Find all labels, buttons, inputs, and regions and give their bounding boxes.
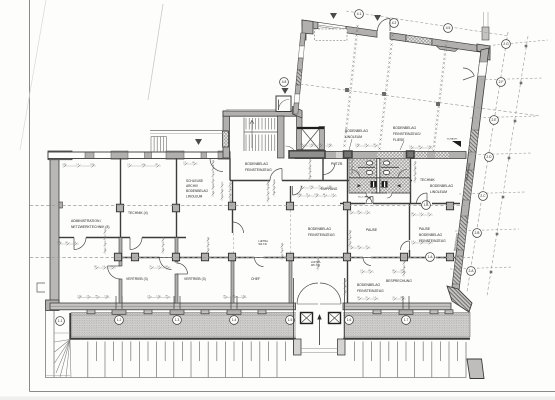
svg-text:2.G: 2.G [503,42,509,46]
svg-text:2.B: 2.B [475,231,481,235]
svg-text:PAUSE: PAUSE [419,227,431,231]
wing left wall pillar bump [59,202,63,208]
canopy line left of stair block [150,130,228,132]
wing bottom-left corner block [46,300,60,311]
grid marker 2.F [497,78,506,87]
scan edge bottom [0,397,555,400]
svg-text:1.7: 1.7 [404,318,409,322]
vestibule side walls [294,278,345,353]
svg-text:SCHACHT: SCHACHT [447,138,458,141]
svg-text:NETZWERKTECHNIK (8): NETZWERKTECHNIK (8) [71,225,109,229]
grid marker 2.B [473,229,482,238]
grid marker 1.6 [345,316,354,325]
arcade band inner edge line [71,314,470,316]
svg-text:BODENBELAG: BODENBELAG [357,283,380,287]
stair block left wall [223,111,230,158]
stair treads [244,118,278,152]
strip bottom second line [46,375,71,377]
svg-text:1.0B: 1.0B [274,179,276,184]
wall y204 right side [340,203,365,205]
wc fixtures [358,184,401,187]
triangle marker canopy [195,139,202,145]
hall left angled wall [293,33,305,114]
grid marker 1.1 [56,317,65,326]
svg-text:BESPRECHUNG: BESPRECHUNG [386,279,412,283]
triangle marker hall top 1 [330,13,337,19]
junction block wc right [407,151,415,158]
parking band outline [46,311,467,378]
small pillar bases below bottom wall [87,310,95,314]
wc shafts black [371,181,388,188]
svg-text:4.8: 4.8 [282,80,287,84]
page border left [29,0,31,392]
svg-text:BODENBELAG: BODENBELAG [430,184,453,188]
svg-text:ARCHIV: ARCHIV [186,184,199,188]
svg-text:TECHNIK: TECHNIK [420,178,435,182]
partition x232 [232,181,234,233]
corridor wall y181 [230,180,270,182]
triangle marker hall top 2 [374,15,381,21]
grid marker 1.5 [286,316,295,325]
grid marker 4.8 [280,78,289,87]
wing bottom exterior wall right part [343,303,451,310]
ledge line above stair block [226,108,296,110]
svg-text:PUTZR.: PUTZR. [331,162,343,166]
grid marker 2.D [485,153,494,162]
svg-text:BODENBELAG: BODENBELAG [419,233,442,237]
grid marker 1.A [426,253,435,262]
svg-text:TECHNIK (4): TECHNIK (4) [128,211,148,215]
arcade band bottom dark edge [70,338,470,340]
sliding door pocket dashed rect [315,29,348,41]
pause divider x409 [409,204,411,240]
svg-text:BODENBELAG: BODENBELAG [345,129,368,133]
wing top exterior wall with windows [48,151,230,159]
grid marker 2.E [490,116,499,125]
svg-text:FEINSTEINZEUG: FEINSTEINZEUG [308,233,335,237]
grid pillars [114,202,453,261]
svg-text:1.B: 1.B [424,203,430,207]
svg-text:LINOLEUM: LINOLEUM [186,194,203,198]
wc hatched floor [349,159,410,194]
stair block top wall [223,111,296,116]
grid marker 2.A [467,267,476,276]
outer chain dots [490,45,528,274]
svg-text:BODENBELAG: BODENBELAG [245,162,268,166]
dimension marks [57,144,469,300]
entrance arrow [319,318,321,345]
grid marker 1.3 [173,316,182,325]
room labels [71,126,472,293]
svg-text:4.5: 4.5 [446,26,451,30]
arcade band left dark edge [69,313,71,340]
svg-text:BODENBELAG: BODENBELAG [186,189,208,193]
door arc stair corridor [286,146,297,157]
svg-text:1.6: 1.6 [347,318,352,322]
svg-text:ADMINISTRATION /: ADMINISTRATION / [71,219,101,223]
wall y257 right side [340,257,363,259]
svg-text:WK 3.8¹: WK 3.8¹ [259,243,268,246]
stair fan bottom-left [55,333,72,378]
entrance steps [294,339,346,355]
arcade stipple band [70,313,470,340]
corner connector hall left wall [293,107,303,119]
entrance mat boxes [301,313,341,324]
strip inner left line [53,311,55,378]
wall strip left of elevator [297,112,303,156]
svg-text:4.1: 4.1 [357,12,362,16]
construction line faint 1 [148,4,163,100]
junction block at stair wall [289,151,325,158]
svg-text:FEINSTEINZEUG: FEINSTEINZEUG [357,289,384,293]
schacht solid triangle [452,141,461,147]
hidden wall dashes [234,210,291,256]
thick partitions lower rooms [119,238,292,304]
besprechung left wall x347 [347,204,349,303]
page border bottom [30,391,555,393]
svg-text:FEINSTEINZEUG: FEINSTEINZEUG [245,168,272,172]
svg-text:SCHLEUSE: SCHLEUSE [186,179,203,183]
brandwand window gap at door [478,62,488,76]
door arcs [74,19,474,280]
vestibule box above stair block [276,96,291,112]
wc toilets [366,161,389,175]
wc central wall [377,159,380,194]
svg-text:LINOLEUM: LINOLEUM [430,190,447,194]
grid marker 2.G [502,40,511,49]
hall top wall [302,20,490,54]
wc partitions [349,178,410,193]
grid marker 1.7 [402,316,411,325]
svg-text:FEINSTEINZEUG/: FEINSTEINZEUG/ [393,132,421,136]
grid marker 1.B [422,201,431,210]
checkered column left of stairs [223,131,229,147]
grid marker 4.5 [444,24,453,33]
junction block wc left [344,151,353,158]
parking band right end gray piece [467,359,484,379]
x marks along hall grid verticals [343,25,447,152]
svg-text:1.1: 1.1 [58,319,63,323]
triangle marker 4.8 [282,88,289,94]
grid marker 2.C [479,192,488,201]
brandwand end piece [447,286,472,312]
svg-text:1.3: 1.3 [175,318,180,322]
svg-text:WC-D | WC-H: WC-D | WC-H [358,197,371,199]
hall south wall [295,152,466,159]
dashed grid lines [30,11,540,296]
svg-text:PAUSE: PAUSE [366,228,378,232]
vestibule double door [297,283,341,304]
parking stall lines [88,342,458,378]
brandwand hatched pieces [469,130,479,152]
svg-text:1.2: 1.2 [117,318,122,322]
elevator shaft [297,127,325,156]
stair block right wall [278,116,285,158]
svg-text:1.A: 1.A [428,255,434,259]
putzraum partition x323 [322,159,324,181]
svg-text:LINOLEUM: LINOLEUM [345,135,362,139]
pillar pedestals below bottom wall [112,310,126,315]
svg-text:BODENBELAG: BODENBELAG [308,227,331,231]
grid marker 1.2 [115,316,124,325]
grid marker 1.4 [230,316,239,325]
svg-text:2.C: 2.C [480,194,486,198]
wing left exterior wall [50,152,59,309]
svg-text:BODENBELAG: BODENBELAG [393,126,416,130]
grid marker 4.2 [390,19,399,28]
wing left wall lower hook [37,283,45,292]
wall y257 left segments [122,257,160,259]
small exterior stair at canopy [151,137,167,153]
svg-text:CHEF: CHEF [251,277,260,281]
hall top-left corner pillar [302,20,313,40]
svg-text:2.A: 2.A [469,269,475,273]
svg-text:1.5: 1.5 [288,318,293,322]
entrance walkway white gap [296,311,343,357]
svg-text:2.D: 2.D [486,155,492,159]
wall y237 left wing [59,237,74,239]
construction line faint 2 [20,0,46,150]
grid marker 4.1 [355,10,364,19]
wc grab bars [358,166,399,168]
partition x290 [290,186,292,206]
partition x120 [59,151,460,303]
svg-text:2.F: 2.F [499,80,504,84]
svg-text:1.4: 1.4 [232,318,237,322]
svg-text:4.2: 4.2 [392,21,397,25]
svg-text:2.E: 2.E [492,118,498,122]
wc block walls [347,158,349,203]
wc door arcs [351,170,407,199]
wing bottom exterior wall left part [50,303,296,310]
partition x230 schleuse [229,159,231,181]
wing top-left corner block [48,151,72,160]
svg-text:VERTRIEB (3): VERTRIEB (3) [126,277,148,281]
svg-text:VERTRIEB (3): VERTRIEB (3) [184,277,206,281]
partition x176 [176,159,178,205]
hall top-right corner + pillar above [477,12,490,60]
hall grid dots [345,88,348,91]
svg-text:FLIESE: FLIESE [393,138,405,142]
brandwand angled right wall [452,48,489,290]
